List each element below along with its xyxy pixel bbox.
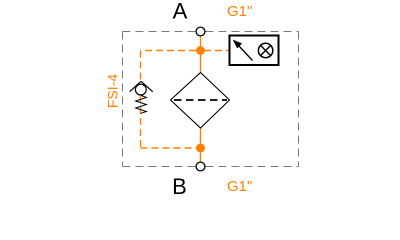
port A circle: [196, 27, 205, 36]
node top junction: [196, 46, 205, 55]
node bottom junction: [196, 144, 205, 153]
wire bypass top: [141, 50, 197, 52]
svg-text:B: B: [172, 174, 187, 199]
wire bypass bottom: [141, 147, 197, 149]
port B circle: [196, 162, 205, 171]
wire bypass left lower: [140, 96, 142, 148]
wire bottom node to port: [200, 148, 202, 163]
svg-text:G1": G1": [227, 3, 252, 20]
wire top port to node: [200, 35, 202, 51]
indicator lamp symbol: [258, 43, 272, 57]
indicator arrow: [234, 41, 253, 61]
enclosure dashed box: [123, 32, 299, 167]
wire filter bottom to node: [200, 128, 202, 148]
wire node to indicator: [204, 50, 229, 52]
spring of check valve: [136, 95, 147, 113]
svg-text:FSI-4: FSI-4: [105, 74, 121, 108]
filter element F1 (diamond with dashed media line): [171, 73, 230, 129]
svg-text:G1": G1": [227, 178, 252, 195]
check valve V1 (bypass): [130, 81, 153, 113]
wire bypass left upper: [140, 51, 142, 82]
svg-text:A: A: [173, 0, 188, 24]
wire node to filter top: [200, 51, 202, 74]
clogging indicator U1 box: [230, 36, 279, 66]
